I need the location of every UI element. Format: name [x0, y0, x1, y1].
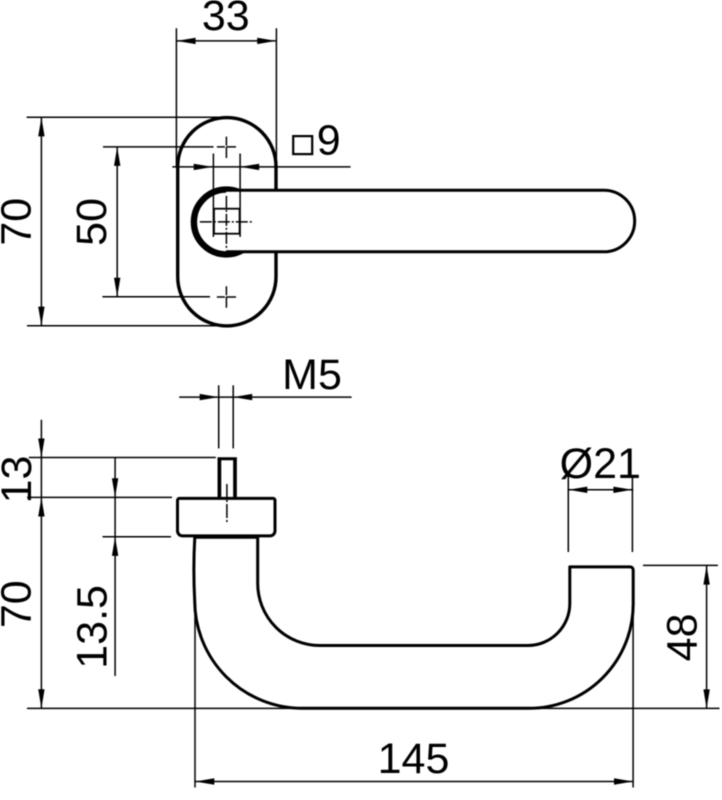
- dimension square 9: extension lines: [212, 154, 214, 237]
- svg-text:Ø21: Ø21: [560, 440, 641, 488]
- dimension 48: bottom arrow: [703, 689, 709, 708]
- cap top extension line: [27, 496, 172, 498]
- svg-text:13.5: 13.5: [69, 585, 117, 669]
- lever grip bar outline (front view): [226, 190, 635, 252]
- dimension 145: right extension line: [632, 606, 634, 788]
- stud left band: [218, 458, 222, 499]
- dimension 33: extension lines: [175, 28, 177, 167]
- dimension 13.5: top arrow: [112, 478, 118, 497]
- dimension 50: extension lines: [103, 146, 214, 148]
- spindle center line vertical: [225, 196, 227, 248]
- handle side profile: [194, 537, 633, 708]
- dimension 13: top extension line: [29, 457, 216, 459]
- M5 threaded stud fill: [218, 457, 237, 499]
- spindle center line horizontal: [200, 221, 253, 223]
- svg-text:48: 48: [659, 613, 707, 661]
- lever neck circle (front view): [194, 190, 259, 255]
- svg-text:13: 13: [0, 456, 41, 504]
- dimension 50: dimension line: [116, 147, 118, 297]
- lever grip bar fill (front view): [226, 190, 635, 252]
- dimension 13 and 70 shared dimension line: [40, 420, 42, 708]
- svg-text:70: 70: [0, 198, 40, 246]
- stud top edge: [218, 457, 237, 460]
- svg-text:33: 33: [202, 0, 250, 40]
- dimension diameter 21: dimension line: [568, 489, 634, 491]
- dimension M5: extension lines: [218, 385, 220, 448]
- bottom screw hole cross: [225, 286, 227, 307]
- dimension 70 top view: top arrow: [38, 117, 44, 136]
- svg-text:M5: M5: [282, 351, 342, 399]
- dimension 13.5: dimension line: [114, 458, 116, 676]
- dimension 33: dimension line: [177, 40, 276, 42]
- svg-text:145: 145: [378, 735, 450, 783]
- dimension 145: left extension line: [194, 601, 196, 788]
- dimension 70 top view: extension lines: [27, 116, 224, 118]
- square spindle hole 9mm: [214, 209, 240, 234]
- dimension square 9: square symbol: [293, 136, 312, 154]
- dimension 48: top arrow: [703, 566, 709, 585]
- dimension 13: top arrow: [38, 439, 44, 458]
- stud right band: [233, 458, 237, 499]
- rosette cap (side view): [178, 498, 276, 536]
- top screw hole cross: [225, 137, 227, 158]
- stud center line: [226, 484, 228, 523]
- dimension 145: dimension line: [195, 781, 633, 783]
- dimension 145: right arrow: [614, 778, 633, 784]
- dimension 33: right arrow: [257, 38, 276, 44]
- svg-text:50: 50: [68, 198, 116, 246]
- dimension 70 top view: dimension line: [40, 117, 42, 325]
- dimension 50: top arrow: [114, 147, 120, 166]
- dimension M5: dimension line: [179, 396, 351, 398]
- dimension M5: right arrow: [233, 394, 252, 400]
- dimension 48: top extension line: [643, 564, 718, 566]
- cap bottom extension line: [103, 536, 172, 538]
- dimension square 9: left arrow: [194, 164, 213, 170]
- dimension 145: left arrow: [195, 778, 214, 784]
- dimension M5: left arrow: [200, 394, 219, 400]
- dimension 70 bottom view: bottom arrow: [38, 689, 44, 708]
- dimension diameter 21: right arrow: [613, 487, 632, 493]
- oval rosette (front view): [178, 118, 276, 326]
- svg-text:9: 9: [317, 116, 341, 164]
- dimension 70 top view: bottom arrow: [38, 307, 44, 326]
- dimension 13/70 shared arrow: [38, 498, 44, 517]
- dimension 50: bottom arrow: [114, 278, 120, 297]
- dimension 48: dimension line: [706, 566, 708, 709]
- dimension square 9: right arrow: [240, 164, 259, 170]
- dimension 33: left arrow: [177, 38, 196, 44]
- dimension 13.5: bottom arrow: [112, 537, 118, 556]
- grip bottom extension line (70 and 48): [27, 707, 720, 709]
- dimension diameter 21: extension lines: [567, 476, 569, 552]
- dimension square 9: dimension/leader line: [172, 166, 350, 168]
- dimension diameter 21: left arrow: [568, 487, 587, 493]
- svg-text:70: 70: [0, 580, 40, 628]
